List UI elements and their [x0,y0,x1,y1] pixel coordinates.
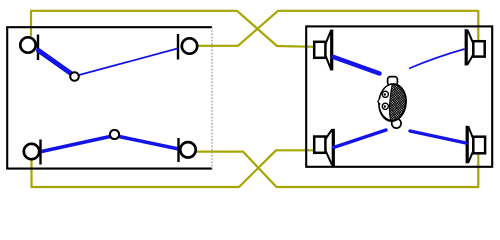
switch lever S1 thin segment (pivot P1 to B1) [79,49,178,76]
speaker SP4 (room bottom-right) [467,126,485,164]
terminal A1 (circle and bar) [20,35,38,61]
terminal B1 (circle and bar) [178,34,197,60]
switch lever S1 thick segment (A1 to pivot P1) [39,51,72,74]
switch box interior fill [7,27,212,168]
wire W1 (from terminal A1 top, crossover, to speaker SP1) [31,11,315,47]
wire W4 (from terminal B2, crossover, to speaker SP4) [196,152,478,187]
sound ray L4 (listener to SP4) [410,131,466,143]
speaker SP3 (room bottom-left) [314,129,333,166]
listener top ear [388,77,398,86]
sound ray L3 (SP3 to listener) [334,130,387,148]
switch box (left enclosure) [7,27,212,168]
speaker room interior fill [306,26,492,166]
switch lever S2 segment (pivot P2 to B2) [119,137,178,149]
speaker SP2 (room top-right) [466,29,484,65]
listener mouth [382,103,388,109]
switch box dotted right edge [211,27,213,169]
sound ray L1 (SP1 to listener, thick) [334,57,380,74]
listener nose [378,98,380,105]
pivot P2 [110,130,119,139]
terminal B2 (circle and bar) [179,138,196,162]
pivot P1 [70,72,79,81]
speaker SP1 (room top-left) [314,30,332,71]
speaker room box (right enclosure) [306,26,492,166]
wire W3 (from terminal A2 bottom, crossover, to speaker SP3) [32,150,316,187]
sound ray L2 (listener to SP2, thin) [409,49,465,69]
listener eye [382,91,388,97]
wire W2 (from terminal B1, crossover, to speaker SP2) [196,11,478,46]
terminal A2 (circle and bar) [24,140,41,165]
listener bottom ear [392,119,401,128]
listener head (top hatched hair, facing left) [378,83,408,122]
switch lever S2 segment (A2 to pivot P2) [42,137,111,152]
